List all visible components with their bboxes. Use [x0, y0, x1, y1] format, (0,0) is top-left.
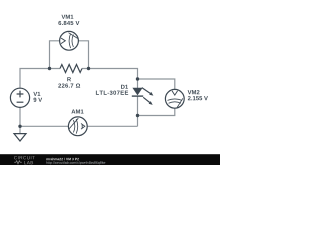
wire: VM2 bottom lead [138, 108, 175, 115]
footer logo squiggle [14, 161, 22, 164]
label R value [58, 83, 80, 87]
resistor R [60, 65, 82, 73]
footer logo CIRCUIT [14, 156, 35, 159]
label D1 part [96, 91, 128, 95]
node: LED bottom / VM2 bottom [136, 114, 139, 117]
LED D1 emission arrow 1 [142, 88, 150, 94]
wire: LED cathode down to bottom rail [137, 96, 139, 126]
footer logo LAB [24, 161, 33, 164]
footer line 1 [46, 158, 79, 161]
node: LED top / VM2 top [136, 77, 139, 80]
node: VM1 left tap [48, 67, 51, 70]
wire: VM2 top lead [138, 79, 175, 90]
wire: LED anode stub [137, 79, 139, 88]
label VM1 [61, 15, 73, 19]
node: ground junction [18, 125, 21, 128]
LED D1 cathode bar [132, 95, 143, 97]
label VM1 value [58, 21, 79, 25]
footer bar [0, 154, 220, 165]
voltage source V1 [10, 88, 29, 107]
ammeter AM1 [68, 117, 87, 136]
wire: bottom rail left of AM1 up to V1 bottom [20, 107, 69, 126]
wire: bottom rail right of AM1 [87, 125, 138, 127]
label V1 value [34, 98, 43, 102]
voltmeter VM1 [60, 31, 79, 50]
ground [14, 134, 26, 141]
label AM1 [71, 109, 83, 113]
wire: ground stub [19, 126, 21, 133]
label VM2 [188, 90, 200, 94]
LED D1 emission arrow 2 [143, 97, 150, 102]
label VM2 value [188, 96, 208, 100]
wire: VM1 left lead [50, 41, 60, 69]
wire: VM1 right lead [78, 41, 88, 69]
footer line 2 [46, 161, 105, 164]
voltmeter VM2 [165, 89, 184, 108]
label V1 [33, 92, 40, 96]
wire: resistor right along top rail, down to node at LED top [82, 69, 138, 80]
node: VM1 right tap [87, 67, 90, 70]
wire: V1 top lead to top rail to resistor left [20, 69, 60, 89]
label D1 [121, 85, 128, 89]
LED D1 triangle [132, 88, 142, 96]
label R [67, 77, 71, 81]
